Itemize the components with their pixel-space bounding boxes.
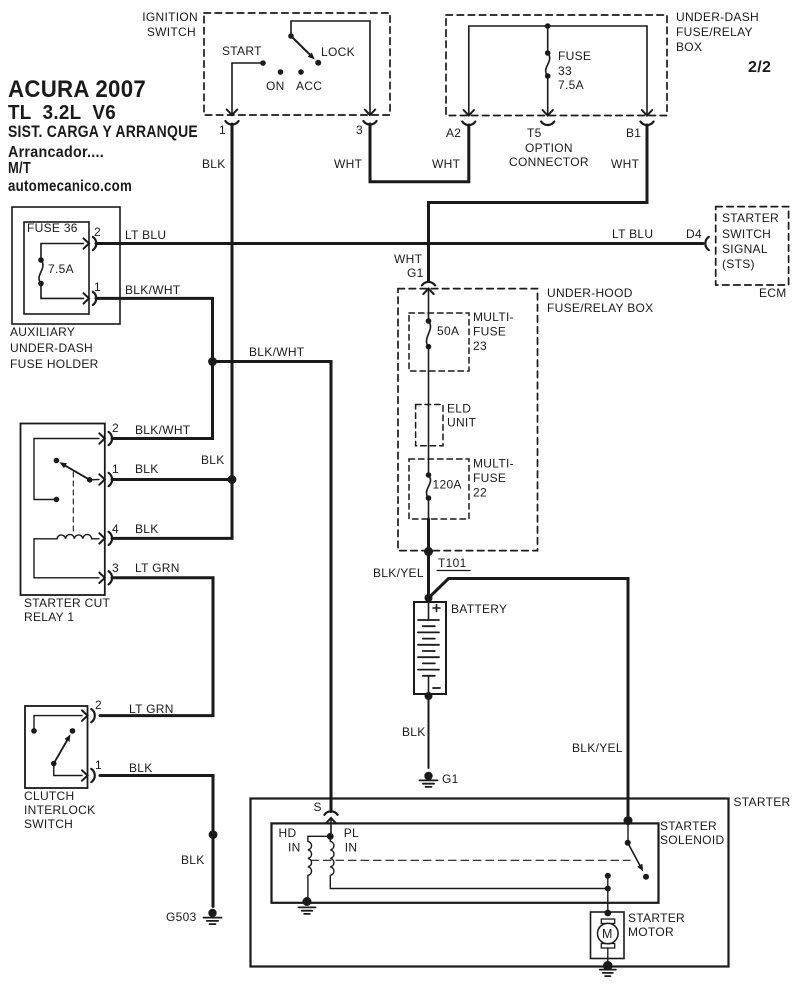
relay switch arm (66, 466, 90, 480)
node relay arm pivot (87, 477, 93, 483)
svg-text:SWITCH: SWITCH (722, 227, 771, 241)
wire BLK clutch pin 1 to ground (100, 776, 213, 907)
wire LT BLU (96, 242, 703, 245)
clutch switch arm (54, 741, 67, 764)
svg-text:WHT: WHT (394, 252, 423, 266)
svg-text:BLK: BLK (135, 462, 159, 476)
connector D4 cup (705, 237, 708, 250)
relay pin 4 connector (99, 533, 105, 543)
svg-text:LT BLU: LT BLU (125, 228, 166, 242)
under-dash bus wire (469, 25, 647, 27)
svg-text:START: START (222, 44, 262, 58)
fuse 36 (38, 257, 44, 263)
svg-text:G1: G1 (407, 266, 424, 280)
ignition position labels (222, 44, 355, 93)
svg-text:MOTOR: MOTOR (628, 925, 674, 939)
coil PL pull-in (330, 836, 608, 888)
solenoid contact stem (627, 821, 629, 843)
node solenoid contact lower (643, 874, 649, 880)
wire LT GRN relay pin 3 to clutch pin 2 (100, 578, 213, 716)
svg-text:T101: T101 (438, 556, 467, 570)
svg-text:BLK: BLK (129, 761, 153, 775)
node BLK/WHT junction (208, 357, 217, 366)
ignition pin 3 connector (365, 110, 375, 116)
svg-text:FUSE/RELAY BOX: FUSE/RELAY BOX (547, 301, 653, 315)
node motor terminal (604, 910, 611, 917)
under-hood box label (547, 286, 653, 315)
ECM box (716, 207, 789, 285)
battery plus sign (433, 605, 440, 612)
labels WHT G1 (394, 252, 424, 280)
svg-text:D4: D4 (686, 227, 702, 241)
node motor feed upper (605, 873, 611, 879)
wire S into solenoid (330, 818, 332, 836)
node battery negative (425, 692, 433, 700)
ELD unit label (447, 402, 477, 430)
svg-text:ON: ON (266, 79, 285, 93)
ground G1 (424, 772, 432, 780)
svg-text:BLK: BLK (135, 522, 159, 536)
svg-text:BLK/YEL: BLK/YEL (572, 741, 623, 755)
battery box (414, 602, 446, 694)
wire fuse 36 to pin 2 (41, 244, 84, 261)
svg-text:23: 23 (473, 339, 487, 353)
wire fuse 36 to pin 1 (41, 284, 84, 299)
svg-text:IGNITION: IGNITION (142, 10, 198, 24)
relay pin 1 connector (99, 474, 105, 484)
svg-text:STARTER: STARTER (660, 819, 717, 833)
svg-text:ACC: ACC (296, 79, 322, 93)
svg-text:OPTION: OPTION (525, 141, 573, 155)
solenoid switch arm (628, 843, 640, 865)
node solenoid contact pivot (625, 840, 631, 846)
svg-text:SIST. CARGA Y ARRANQUE: SIST. CARGA Y ARRANQUE (8, 123, 198, 141)
wire junction to relay pin 4 (112, 480, 232, 539)
svg-text:M/T: M/T (8, 160, 31, 177)
relay coil (34, 534, 99, 577)
node BLK ground junction (209, 830, 218, 839)
node solenoid supply (624, 816, 633, 825)
wire BLK from ignition pin 1 (231, 124, 234, 480)
node motor feed lower (605, 886, 611, 892)
wire BLK/YEL battery to solenoid (429, 579, 629, 819)
motor brush bottom (601, 944, 614, 949)
svg-text:2: 2 (95, 698, 102, 712)
svg-text:UNDER-HOOD: UNDER-HOOD (547, 286, 633, 300)
multi-fuse 22 label (473, 457, 514, 500)
node relay NC contact (54, 497, 60, 503)
node clutch contact A (31, 728, 37, 734)
svg-text:MULTI-: MULTI- (473, 310, 514, 324)
svg-text:2/2: 2/2 (748, 59, 771, 76)
wire BLK/WHT junction to relay pin 2 (112, 362, 213, 439)
wire WHT B1 to G1 (429, 125, 648, 282)
wire fuse 33 to T5 (547, 76, 549, 114)
svg-text:ECM: ECM (759, 286, 787, 300)
svg-text:A2: A2 (446, 126, 461, 140)
wire bus to A2 (468, 26, 470, 114)
svg-text:120A: 120A (433, 478, 462, 492)
svg-text:G503: G503 (166, 910, 197, 924)
svg-text:BLK: BLK (402, 725, 426, 739)
svg-text:UNDER-DASH: UNDER-DASH (676, 10, 759, 24)
ignition rotor arm (291, 36, 310, 55)
battery bottom stub (428, 676, 430, 696)
node battery positive (425, 594, 433, 602)
svg-text:BATTERY: BATTERY (451, 602, 507, 616)
svg-text:automecanico.com: automecanico.com (8, 178, 132, 195)
svg-text:CLUTCH: CLUTCH (24, 789, 74, 803)
wire T101 to battery (427, 552, 430, 599)
svg-text:BLK: BLK (181, 853, 205, 867)
ground G503 (208, 909, 216, 917)
starter assembly box (251, 799, 729, 967)
ignition pin 1 connector (227, 110, 237, 116)
svg-text:7.5A: 7.5A (558, 78, 584, 92)
svg-text:G1: G1 (442, 772, 459, 786)
svg-text:HD: HD (279, 826, 297, 840)
option connector labels (432, 141, 640, 171)
svg-text:2: 2 (94, 225, 101, 239)
node ACC contact (298, 69, 304, 75)
clutch interlock switch box (25, 706, 88, 788)
wire G1 to fuse 50A (428, 289, 430, 321)
svg-text:Arrancador....: Arrancador.... (8, 144, 104, 161)
clutch switch label (24, 789, 95, 831)
labels HD IN PL IN (279, 826, 360, 855)
svg-text:UNDER-DASH: UNDER-DASH (10, 341, 93, 355)
under-dash fuse/relay box (446, 15, 667, 116)
starter solenoid label (660, 819, 724, 847)
wire battery negative to G1 (428, 696, 430, 768)
clutch pin 2 connector (82, 710, 88, 720)
svg-text:ELD: ELD (447, 402, 471, 416)
svg-text:STARTER CUT: STARTER CUT (24, 596, 111, 610)
svg-text:50A: 50A (437, 324, 459, 338)
wire bus to B1 (646, 26, 648, 114)
svg-text:IN: IN (288, 841, 301, 855)
svg-text:BOX: BOX (676, 40, 702, 54)
svg-text:WHT: WHT (334, 157, 363, 171)
svg-text:FUSE/RELAY: FUSE/RELAY (676, 25, 753, 39)
svg-text:ACURA 2007: ACURA 2007 (8, 76, 146, 103)
svg-text:1: 1 (95, 758, 102, 772)
relay pin 3 connector (99, 573, 105, 583)
ignition switch box S1 (204, 13, 390, 115)
svg-text:RELAY 1: RELAY 1 (24, 610, 74, 624)
wire relay pin 1 to junction (112, 478, 232, 481)
node S junction (327, 833, 334, 840)
svg-text:SWITCH: SWITCH (147, 25, 196, 39)
motor M circle (598, 923, 619, 944)
coil HD hold-in (308, 836, 330, 898)
svg-text:WHT: WHT (611, 157, 640, 171)
relay actuation dashed link (72, 472, 74, 533)
clutch pin 1 connector (82, 770, 88, 780)
svg-text:BLK: BLK (202, 157, 226, 171)
svg-text:22: 22 (473, 486, 487, 500)
svg-text:1: 1 (94, 280, 101, 294)
node clutch contact B (70, 728, 76, 734)
svg-text:SOLENOID: SOLENOID (660, 833, 724, 847)
svg-text:STARTER: STARTER (628, 911, 685, 925)
starter cut relay box (21, 424, 105, 596)
motor bottom wire (607, 948, 609, 963)
svg-text:MULTI-: MULTI- (473, 457, 514, 471)
svg-text:S: S (314, 800, 322, 814)
node BLK tap junction (228, 475, 237, 484)
battery top stub (428, 598, 430, 620)
fuse 33 labels (558, 49, 591, 92)
node rotor pivot (288, 33, 294, 39)
ground starter motor (603, 961, 613, 971)
aux fuse holder inner box (24, 222, 89, 314)
wire 50A to 120A (428, 347, 430, 475)
relay label (24, 596, 111, 624)
relay internal pin1 wire (90, 479, 99, 481)
svg-text:BLK/YEL: BLK/YEL (373, 566, 424, 580)
svg-text:SWITCH: SWITCH (24, 817, 73, 831)
fuse 50A (426, 318, 432, 324)
svg-text:B1: B1 (626, 126, 641, 140)
svg-text:3: 3 (112, 561, 119, 575)
svg-text:CONNECTOR: CONNECTOR (509, 155, 589, 169)
svg-text:LOCK: LOCK (321, 45, 355, 59)
connector B1 (642, 110, 652, 116)
svg-text:LT GRN: LT GRN (135, 561, 180, 575)
wire WHT ignition pin 3 to A2 (370, 124, 469, 182)
svg-text:LT BLU: LT BLU (612, 227, 653, 241)
title block (8, 76, 198, 195)
node clutch arm pivot (51, 761, 57, 767)
svg-text:TL 3.2L V6: TL 3.2L V6 (8, 102, 116, 124)
fuse holder pin 1 connector (84, 293, 90, 303)
svg-text:(STS): (STS) (722, 257, 755, 271)
svg-text:FUSE HOLDER: FUSE HOLDER (10, 357, 99, 371)
starter motor box (591, 912, 625, 959)
multi-fuse 23 box (409, 313, 469, 371)
svg-text:FUSE: FUSE (473, 471, 506, 485)
motor brush top (601, 919, 614, 924)
svg-text:INTERLOCK: INTERLOCK (24, 803, 95, 817)
multi-fuse 23 label (473, 310, 514, 353)
connector G1 under-hood (423, 289, 433, 295)
battery plates (418, 620, 439, 676)
svg-text:BLK/WHT: BLK/WHT (135, 423, 191, 437)
connector T5 (543, 110, 553, 116)
fuse 120A (426, 472, 432, 478)
connector A2 (464, 110, 474, 116)
node ON contact (278, 69, 284, 75)
svg-text:2: 2 (112, 421, 119, 435)
starter solenoid box (272, 823, 659, 902)
battery minus sign (433, 687, 440, 689)
svg-text:BLK: BLK (201, 453, 225, 467)
clutch internal pin 2 wire (34, 716, 82, 731)
wire BLK/WHT junction to S (213, 362, 332, 812)
svg-text:SIGNAL: SIGNAL (722, 242, 768, 256)
wire bus to fuse 33 (547, 26, 549, 53)
solenoid actuation dashed line (311, 859, 630, 861)
connector S (326, 818, 336, 824)
fuse holder pin 2 connector (84, 238, 90, 248)
wire 120A to T101 (428, 498, 430, 519)
node relay NO contact (54, 458, 60, 464)
svg-text:1: 1 (112, 462, 119, 476)
starter motor label (628, 911, 685, 939)
ELD unit box (416, 405, 443, 446)
under-dash box label (676, 10, 759, 54)
svg-text:7.5A: 7.5A (48, 262, 74, 276)
ignition LOCK feed wire (291, 21, 370, 114)
ignition START contact wire (232, 63, 263, 114)
svg-text:FUSE: FUSE (558, 49, 591, 63)
ECM labels (722, 211, 787, 300)
node T101 (424, 547, 433, 556)
svg-text:LT GRN: LT GRN (129, 702, 174, 716)
svg-text:FUSE 36: FUSE 36 (27, 221, 78, 235)
svg-text:T5: T5 (527, 126, 542, 140)
node START contact (260, 60, 266, 66)
wire motor feed (607, 876, 609, 913)
node bus junction (545, 23, 551, 29)
ignition switch label (142, 10, 198, 39)
svg-text:STARTER: STARTER (722, 211, 779, 225)
clutch internal pin 1 wire (54, 764, 82, 776)
svg-text:BLK/WHT: BLK/WHT (125, 283, 181, 297)
node LOCK contact (315, 60, 321, 66)
aux fuse holder label (10, 325, 99, 371)
wire BLK/WHT fuse holder (96, 298, 213, 361)
aux fuse holder outer box (12, 207, 120, 324)
svg-text:FUSE: FUSE (473, 325, 506, 339)
svg-text:IN: IN (345, 841, 358, 855)
svg-text:AUXILIARY: AUXILIARY (10, 325, 75, 339)
multi-fuse 22 box (409, 459, 469, 519)
svg-text:4: 4 (112, 522, 119, 536)
svg-text:UNIT: UNIT (447, 416, 477, 430)
svg-text:33: 33 (558, 64, 572, 78)
under-hood fuse/relay box (398, 289, 538, 551)
svg-text:BLK/WHT: BLK/WHT (249, 345, 305, 359)
ground solenoid internal (303, 897, 312, 906)
svg-text:3: 3 (356, 123, 363, 137)
relay internal pin2 to NC contact (34, 439, 99, 500)
svg-text:PL: PL (344, 826, 359, 840)
svg-text:M: M (602, 927, 613, 941)
svg-text:1: 1 (219, 123, 226, 137)
svg-text:STARTER: STARTER (734, 795, 791, 809)
relay pin 2 connector (99, 433, 105, 443)
fuse 33 (545, 50, 551, 56)
svg-text:WHT: WHT (432, 157, 461, 171)
